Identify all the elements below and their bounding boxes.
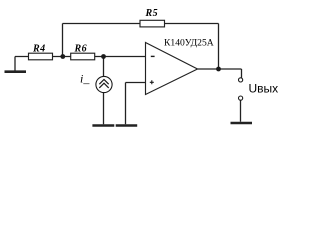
svg-text:R6: R6 <box>74 43 88 54</box>
svg-text:i_: i_ <box>80 72 90 86</box>
svg-text:Uвых: Uвых <box>249 81 279 95</box>
svg-text:R4: R4 <box>32 43 46 54</box>
svg-text:К140УД25А: К140УД25А <box>164 37 214 48</box>
svg-text:R5: R5 <box>145 8 159 19</box>
